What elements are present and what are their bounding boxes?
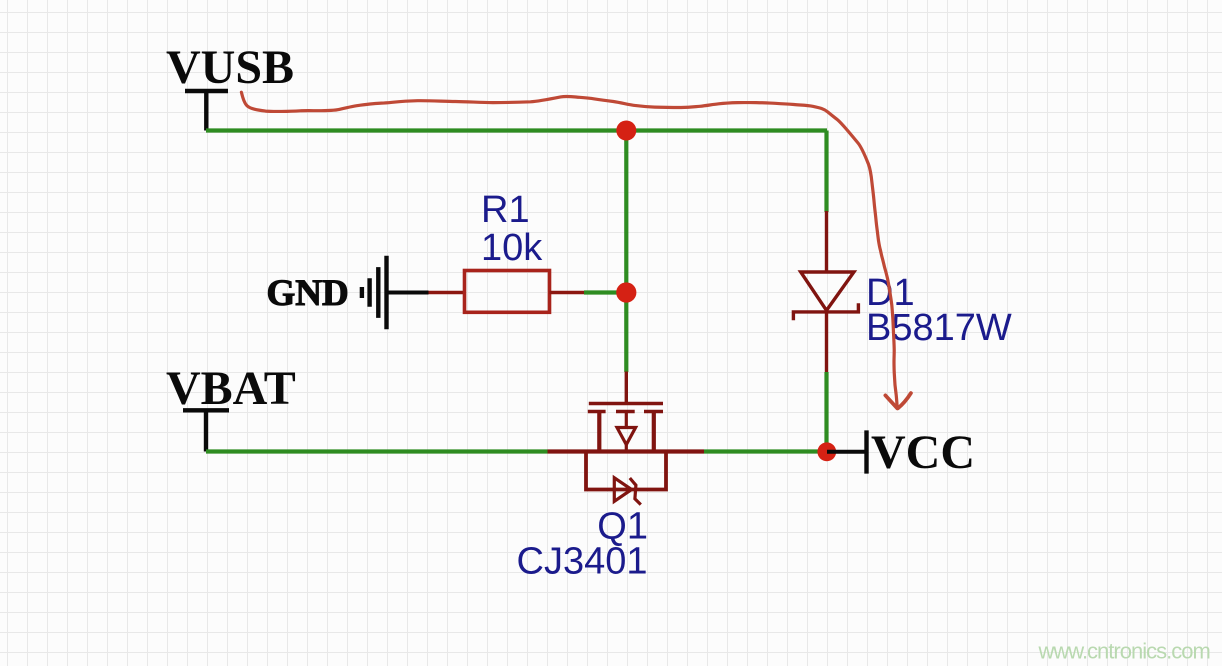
resistor R1 (429, 271, 585, 313)
wire D1 to node VCC (824, 372, 828, 452)
wire Q1 to node VCC (704, 449, 827, 453)
transistor Q1 (548, 372, 705, 505)
diode D1 (793, 211, 858, 372)
wire node A down to node B (624, 131, 628, 293)
wire node B down to Q1 gate (624, 293, 628, 373)
junction node A (616, 121, 636, 141)
label Q1 CJ3401 (517, 506, 648, 583)
svg-text:VBAT: VBAT (166, 362, 296, 415)
wire top rail to D1 (824, 131, 828, 213)
svg-text:GND: GND (267, 273, 349, 314)
label R1 10k (481, 189, 543, 269)
label D1 B5817W (866, 272, 1012, 349)
svg-text:B5817W: B5817W (866, 307, 1012, 349)
port VCC (827, 426, 975, 479)
junction node VCC (817, 442, 836, 461)
svg-text:R1: R1 (481, 189, 530, 231)
svg-text:10k: 10k (481, 227, 543, 269)
svg-text:VUSB: VUSB (166, 41, 294, 94)
port VBAT (166, 362, 296, 452)
svg-text:www.cntronics.com: www.cntronics.com (1038, 639, 1210, 664)
wire VBAT to Q1 (206, 449, 548, 453)
junction node B (616, 282, 636, 302)
wire R1 to node B (584, 290, 626, 294)
svg-text:VCC: VCC (871, 426, 975, 479)
port VUSB (166, 41, 294, 131)
annotation arrow (red squiggle) (241, 92, 911, 408)
svg-text:CJ3401: CJ3401 (517, 541, 648, 583)
wire VUSB top rail (206, 128, 827, 132)
ground GND (267, 256, 429, 330)
